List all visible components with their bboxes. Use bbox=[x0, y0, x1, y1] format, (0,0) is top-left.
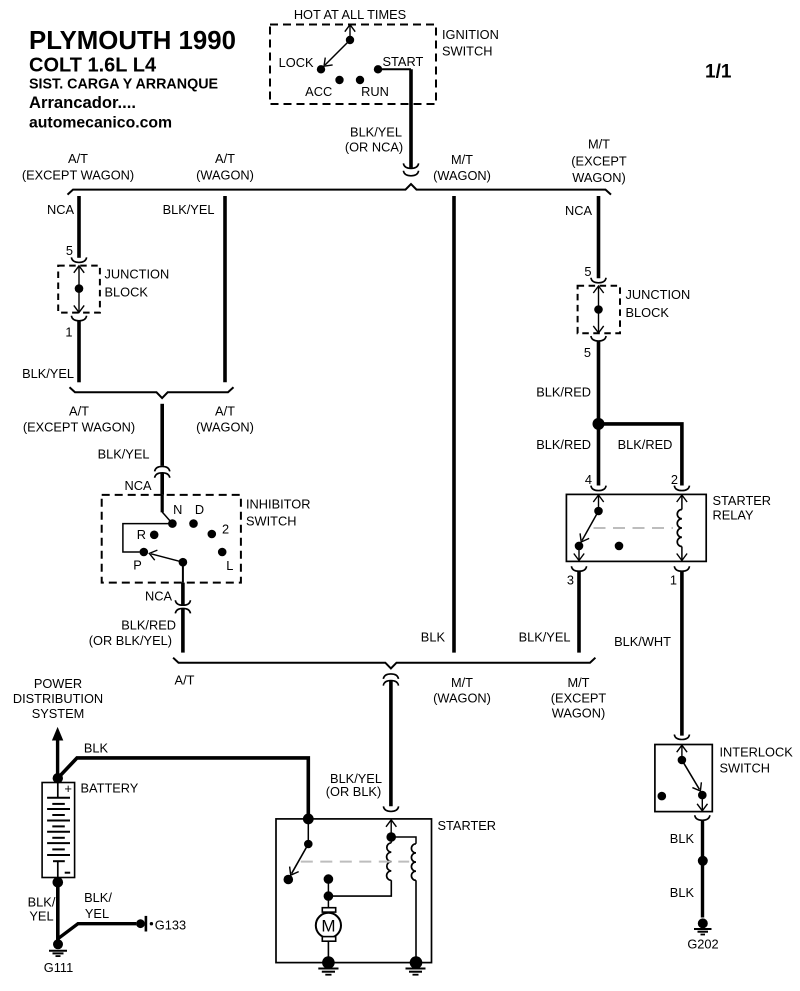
contact dot N bbox=[168, 519, 177, 528]
svg-text:+: + bbox=[64, 781, 72, 796]
svg-text:SWITCH: SWITCH bbox=[246, 514, 296, 529]
svg-text:BLK/RED: BLK/RED bbox=[121, 618, 176, 633]
relay switch lower contact dot bbox=[575, 542, 584, 551]
solenoid input arrow bbox=[386, 820, 396, 837]
svg-text:BLK/: BLK/ bbox=[28, 895, 56, 910]
svg-text:JUNCTION: JUNCTION bbox=[105, 267, 170, 282]
connector at junction block 2 pin 5 bottom bbox=[591, 336, 606, 341]
svg-text:BLK: BLK bbox=[421, 630, 446, 645]
connector relay pin 3 bbox=[571, 566, 586, 571]
starter hold-in coil bbox=[411, 844, 416, 881]
svg-text:STARTER: STARTER bbox=[713, 493, 772, 508]
svg-text:(WAGON): (WAGON) bbox=[196, 168, 254, 183]
wire NCA into inhibitor switch bbox=[160, 473, 164, 495]
wire BLK/RED (OR BLK/YEL) bbox=[181, 609, 185, 653]
arrow to power distribution system bbox=[52, 727, 63, 778]
label BLK/RED (OR BLK/YEL) bbox=[89, 618, 176, 649]
label A/T (EXCEPT WAGON) top-left bbox=[22, 151, 134, 183]
label JUNCTION BLOCK right bbox=[626, 287, 691, 320]
inhibitor wiper arrow to P bbox=[148, 548, 183, 562]
hold-in coil ground wire bbox=[415, 880, 417, 962]
label A/T (EXCEPT WAGON) mid-left bbox=[23, 404, 135, 435]
svg-text:BLK/RED: BLK/RED bbox=[618, 437, 673, 452]
wire NCA right column bbox=[597, 196, 601, 278]
contact dot P bbox=[140, 548, 149, 557]
label M/T (WAGON) top bbox=[433, 152, 491, 183]
svg-text:P: P bbox=[133, 558, 142, 573]
contact dot D bbox=[189, 519, 198, 528]
label INHIBITOR SWITCH bbox=[246, 497, 310, 529]
starter contact dot upper center bbox=[324, 874, 334, 884]
contact dot RUN bbox=[356, 76, 364, 84]
starter contact dot lower center bbox=[324, 891, 334, 901]
svg-text:M/T: M/T bbox=[588, 137, 610, 152]
svg-text:PLYMOUTH 1990: PLYMOUTH 1990 bbox=[29, 27, 236, 55]
mid merge brace A/T bbox=[70, 387, 234, 398]
contact dot L bbox=[218, 548, 227, 557]
label BLK/ YEL branch bbox=[84, 890, 112, 921]
connector interlock switch input bbox=[674, 735, 689, 740]
svg-text:JUNCTION: JUNCTION bbox=[626, 287, 691, 302]
label A/T (WAGON) mid bbox=[196, 404, 254, 435]
inhibitor exit wire bbox=[182, 562, 184, 582]
wire BLK/YEL merged A/T bbox=[160, 404, 164, 466]
interlock entry arrow bbox=[677, 745, 687, 760]
relay coil bbox=[677, 495, 687, 561]
svg-text:A/T: A/T bbox=[215, 404, 235, 419]
starter actuation dashed link bbox=[301, 861, 409, 863]
bottom merge brace bbox=[173, 658, 595, 669]
svg-text:IGNITION: IGNITION bbox=[442, 27, 499, 42]
starter ground symbol left bbox=[318, 969, 338, 975]
link to hold-in coil bbox=[391, 837, 416, 844]
wire branch to G133 bbox=[59, 924, 137, 939]
solenoid coil top link bbox=[390, 837, 392, 843]
ignition switch pivot contact dot bbox=[346, 36, 354, 44]
junction node dot BLK/RED bbox=[593, 418, 605, 430]
svg-text:Arrancador....: Arrancador.... bbox=[29, 93, 136, 112]
G133 connector bar bbox=[145, 916, 148, 932]
starter battery input dot bbox=[303, 814, 314, 825]
label JUNCTION BLOCK left bbox=[105, 267, 170, 300]
junction block 1 internal arrow bbox=[74, 266, 84, 313]
wire BLK/YEL A/T wagon bbox=[223, 196, 227, 382]
svg-text:BLK/YEL: BLK/YEL bbox=[22, 366, 74, 381]
label M/T (WAGON) bottom bbox=[433, 675, 491, 706]
svg-text:D: D bbox=[195, 502, 204, 517]
wire BLK battery to starter bbox=[58, 758, 308, 819]
starter link to solenoid coil bbox=[328, 880, 391, 896]
contact dot ACC bbox=[335, 76, 343, 84]
label M/T (EXCEPT WAGON) bottom bbox=[551, 675, 607, 721]
junction block 2 node dot bbox=[594, 305, 603, 314]
ground G202 symbol bbox=[694, 929, 712, 935]
svg-text:BATTERY: BATTERY bbox=[81, 781, 139, 796]
svg-text:2: 2 bbox=[671, 472, 678, 487]
wire BLK/YEL battery negative bbox=[56, 882, 60, 941]
svg-text:(OR NCA): (OR NCA) bbox=[345, 140, 403, 155]
ground G111 dot bbox=[53, 939, 63, 949]
wire BLK/RED below junction block 2 bbox=[597, 341, 601, 424]
connector at junction block 2 pin 5 top bbox=[591, 278, 606, 283]
svg-text:2: 2 bbox=[222, 522, 229, 537]
inline connector at top bus bbox=[403, 163, 418, 175]
wire BLK below interlock bbox=[701, 821, 704, 918]
svg-text:DISTRIBUTION: DISTRIBUTION bbox=[13, 691, 103, 706]
svg-text:SYSTEM: SYSTEM bbox=[32, 706, 85, 721]
svg-text:ACC: ACC bbox=[305, 84, 332, 99]
junction block 1 box bbox=[58, 266, 100, 313]
svg-text:COLT 1.6L L4: COLT 1.6L L4 bbox=[29, 55, 157, 77]
starter ground symbol right bbox=[406, 969, 426, 975]
relay actuation dashed link bbox=[594, 527, 674, 529]
solenoid input node dot bbox=[386, 832, 396, 842]
motor lower terminal bbox=[322, 937, 335, 942]
battery internal top lead bbox=[57, 783, 59, 798]
svg-text:G133: G133 bbox=[155, 918, 186, 933]
svg-text:BLK/YEL: BLK/YEL bbox=[98, 447, 150, 462]
svg-text:RUN: RUN bbox=[361, 84, 389, 99]
svg-text:A/T: A/T bbox=[68, 151, 88, 166]
junction block 1 node dot bbox=[75, 284, 84, 293]
interlock pivot dot bbox=[678, 756, 687, 765]
svg-text:BLK/WHT: BLK/WHT bbox=[614, 634, 671, 649]
contact dot LOCK bbox=[317, 65, 325, 73]
svg-text:A/T: A/T bbox=[175, 673, 195, 688]
connector at junction block 1 pin 1 bbox=[71, 316, 86, 321]
svg-text:A/T: A/T bbox=[69, 404, 89, 419]
connector at junction block 1 pin 5 bbox=[71, 257, 86, 262]
svg-text:5: 5 bbox=[66, 243, 73, 258]
svg-text:INTERLOCK: INTERLOCK bbox=[720, 745, 794, 760]
starter box bbox=[276, 819, 432, 963]
svg-text:(EXCEPT: (EXCEPT bbox=[571, 154, 627, 169]
motor feed link bbox=[327, 896, 329, 908]
connector interlock switch output bbox=[695, 815, 710, 820]
svg-text:(OR BLK/YEL): (OR BLK/YEL) bbox=[89, 633, 172, 648]
svg-text:SIST. CARGA Y ARRANQUE: SIST. CARGA Y ARRANQUE bbox=[29, 77, 218, 93]
svg-text:YEL: YEL bbox=[85, 906, 109, 921]
battery box bbox=[42, 783, 75, 878]
svg-text:HOT AT ALL TIMES: HOT AT ALL TIMES bbox=[294, 7, 406, 22]
svg-text:BLK/YEL: BLK/YEL bbox=[350, 125, 402, 140]
interlock exit arrow bbox=[697, 795, 707, 811]
inhibitor N-to-P link wire bbox=[123, 524, 172, 552]
starter ground dot right bbox=[410, 956, 423, 969]
contact dot START bbox=[374, 65, 382, 73]
BLK splice dot bbox=[698, 856, 708, 866]
svg-text:BLK/: BLK/ bbox=[84, 890, 112, 905]
svg-text:(WAGON): (WAGON) bbox=[196, 420, 254, 435]
svg-text:5: 5 bbox=[584, 345, 591, 360]
contact dot R bbox=[150, 531, 159, 540]
svg-text:YEL: YEL bbox=[29, 909, 53, 924]
wire M/T wagon center bbox=[452, 196, 456, 653]
wire BLK/YEL (OR BLK) to starter bbox=[389, 681, 393, 806]
label M/T (EXCEPT WAGON) top-right bbox=[571, 137, 627, 186]
starter relay box bbox=[566, 494, 706, 561]
inline connector below bottom brace bbox=[383, 674, 398, 686]
label A/T (WAGON) top bbox=[196, 151, 254, 183]
svg-text:NCA: NCA bbox=[565, 203, 592, 218]
svg-text:1: 1 bbox=[65, 325, 72, 340]
svg-text:L: L bbox=[226, 558, 233, 573]
svg-text:BLK: BLK bbox=[670, 831, 695, 846]
relay center contact dot bbox=[615, 542, 624, 551]
inhibitor entry wire to N bbox=[162, 495, 172, 524]
svg-text:BLK: BLK bbox=[84, 741, 109, 756]
interlock switch box bbox=[655, 745, 712, 812]
svg-text:5: 5 bbox=[584, 264, 591, 279]
wire branch to relay pin 2 bbox=[599, 424, 682, 486]
battery minus sign bbox=[65, 872, 71, 874]
svg-text:1: 1 bbox=[670, 573, 677, 588]
inline connector above inhibitor switch bbox=[155, 466, 170, 477]
interlock lower contact dot bbox=[698, 791, 707, 800]
svg-text:BLOCK: BLOCK bbox=[626, 305, 670, 320]
svg-text:BLK/RED: BLK/RED bbox=[536, 385, 591, 400]
inline connector below inhibitor bbox=[175, 600, 190, 613]
svg-text:NCA: NCA bbox=[145, 589, 172, 604]
wire BLK/YEL from relay pin 3 bbox=[577, 572, 581, 653]
inhibitor switch box bbox=[102, 495, 241, 583]
label POWER DISTRIBUTION SYSTEM bbox=[13, 676, 103, 721]
svg-text:(WAGON): (WAGON) bbox=[433, 691, 491, 706]
starter switch upper contact dot bbox=[304, 840, 313, 849]
top distribution brace bbox=[68, 184, 612, 195]
starter switch lower contact dot bbox=[284, 875, 294, 885]
ground G111 symbol bbox=[49, 951, 67, 956]
svg-text:SWITCH: SWITCH bbox=[442, 44, 492, 59]
wire to relay pin 4 bbox=[597, 424, 601, 486]
junction block 2 box bbox=[578, 286, 620, 333]
wire NCA left column bbox=[77, 196, 81, 258]
svg-text:3: 3 bbox=[567, 573, 574, 588]
ignition switch arrow to HOT feed bbox=[345, 25, 355, 40]
svg-text:(WAGON): (WAGON) bbox=[433, 168, 491, 183]
ignition switch box bbox=[270, 25, 436, 105]
inhibitor wiper arrow pivot dot bbox=[179, 558, 188, 567]
svg-text:R: R bbox=[137, 527, 146, 542]
svg-text:BLK/RED: BLK/RED bbox=[536, 437, 591, 452]
svg-text:BLOCK: BLOCK bbox=[105, 285, 149, 300]
connector relay pin 4 bbox=[591, 486, 606, 491]
svg-text:LOCK: LOCK bbox=[279, 55, 314, 70]
svg-text:(EXCEPT WAGON): (EXCEPT WAGON) bbox=[23, 420, 135, 435]
svg-text:RELAY: RELAY bbox=[713, 508, 754, 523]
svg-text:M/T: M/T bbox=[451, 675, 473, 690]
battery internal bottom lead bbox=[57, 861, 59, 877]
svg-text:M/T: M/T bbox=[567, 675, 589, 690]
relay pin 3 exit arrow bbox=[574, 546, 584, 561]
starter ground dot left bbox=[322, 956, 335, 969]
svg-text:G111: G111 bbox=[44, 960, 73, 975]
battery positive node dot bbox=[53, 773, 63, 783]
label BLK/ YEL battery negative bbox=[28, 895, 56, 924]
label BLK/YEL (OR BLK) bbox=[326, 771, 382, 799]
battery plates bbox=[47, 798, 70, 861]
label BLK/YEL (OR NCA) bbox=[345, 125, 403, 155]
svg-text:WAGON): WAGON) bbox=[572, 170, 626, 185]
motor M1 bbox=[316, 913, 341, 938]
contact dot 2 bbox=[208, 530, 217, 539]
svg-text:automecanico.com: automecanico.com bbox=[29, 115, 172, 132]
svg-text:WAGON): WAGON) bbox=[552, 706, 606, 721]
svg-text:1/1: 1/1 bbox=[705, 62, 732, 83]
starter switch link bbox=[307, 819, 309, 844]
label STARTER RELAY bbox=[713, 493, 772, 523]
motor upper terminal bbox=[322, 908, 335, 912]
svg-text:BLK/YEL: BLK/YEL bbox=[519, 630, 571, 645]
starter center link bbox=[327, 879, 329, 896]
label IGNITION SWITCH bbox=[442, 27, 499, 59]
svg-text:BLK: BLK bbox=[670, 885, 695, 900]
svg-text:(EXCEPT WAGON): (EXCEPT WAGON) bbox=[22, 168, 134, 183]
relay switch wiper arrow bbox=[577, 511, 599, 545]
relay pin 4 entry arrow bbox=[593, 495, 603, 511]
svg-text:INHIBITOR: INHIBITOR bbox=[246, 497, 310, 512]
G133 tick bbox=[150, 922, 153, 925]
wire from START contact bbox=[378, 68, 411, 70]
svg-text:NCA: NCA bbox=[47, 202, 74, 217]
connector starter solenoid input bbox=[383, 806, 398, 811]
svg-text:SWITCH: SWITCH bbox=[720, 761, 770, 776]
interlock wiper arrow bbox=[682, 760, 705, 794]
svg-text:START: START bbox=[383, 54, 424, 69]
G133 splice dot bbox=[136, 919, 145, 928]
starter switch wiper arrow bbox=[286, 844, 308, 878]
connector relay pin 2 bbox=[674, 486, 689, 491]
wire BLK/YEL below junction block 1 bbox=[77, 321, 81, 382]
svg-text:N: N bbox=[173, 502, 182, 517]
wire NCA below inhibitor bbox=[181, 583, 185, 605]
connector relay pin 1 bbox=[674, 566, 689, 571]
wire BLK/YEL from ignition switch down bbox=[409, 69, 413, 168]
battery negative node dot bbox=[53, 877, 64, 888]
svg-text:STARTER: STARTER bbox=[438, 818, 497, 833]
label INTERLOCK SWITCH bbox=[720, 745, 794, 776]
svg-text:4: 4 bbox=[585, 472, 592, 487]
ground G202 dot bbox=[698, 918, 708, 928]
svg-text:NCA: NCA bbox=[124, 478, 151, 493]
junction block 2 internal arrow bbox=[593, 286, 603, 333]
svg-text:A/T: A/T bbox=[215, 151, 235, 166]
svg-text:(OR BLK): (OR BLK) bbox=[326, 784, 381, 799]
starter solenoid pull-in coil bbox=[387, 843, 392, 881]
wire BLK/WHT from relay pin 1 bbox=[680, 572, 684, 736]
svg-text:M/T: M/T bbox=[451, 152, 473, 167]
svg-text:G202: G202 bbox=[687, 937, 718, 952]
motor ground link bbox=[327, 941, 329, 962]
relay switch pivot dot bbox=[594, 507, 603, 516]
svg-text:POWER: POWER bbox=[34, 676, 82, 691]
interlock spare contact dot bbox=[658, 792, 667, 801]
ignition switch wiper arrow to LOCK bbox=[320, 40, 350, 70]
svg-text:M: M bbox=[321, 917, 335, 936]
svg-text:(EXCEPT: (EXCEPT bbox=[551, 691, 607, 706]
svg-text:BLK/YEL: BLK/YEL bbox=[163, 202, 215, 217]
